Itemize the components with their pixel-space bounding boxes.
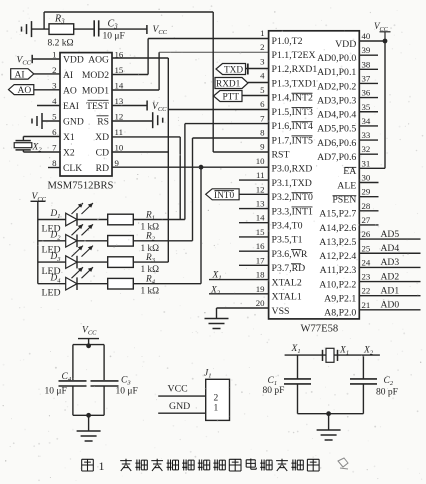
wire X1 to XTAL2 pin18 [209, 279, 269, 281]
resistor R2 body [108, 236, 134, 247]
svg-text:9: 9 [260, 142, 265, 152]
crystal X2 body [14, 143, 32, 148]
svg-text:A8,P2.0: A8,P2.0 [324, 308, 356, 319]
wire R3 to C3 [74, 28, 95, 30]
wire C3 to Vcc [99, 28, 147, 30]
svg-text:A9,P2.1: A9,P2.1 [324, 294, 356, 305]
svg-text:3: 3 [52, 81, 57, 91]
svg-text:PTT: PTT [223, 93, 240, 103]
stub pin 32 [359, 153, 378, 155]
node column AOG/P1.5/CD/D3 vertical [167, 58, 169, 262]
svg-text:1: 1 [99, 459, 105, 473]
svg-text:1: 1 [260, 28, 264, 38]
wire bottom rail of cap pair [73, 414, 104, 416]
stray mark right of caption [338, 458, 348, 469]
junction node RD/D4 [199, 165, 204, 170]
top rail wire (ground-R3 junction to RST column) [44, 11, 213, 13]
svg-text:6: 6 [260, 99, 265, 109]
svg-text:14: 14 [256, 213, 265, 223]
svg-text:6: 6 [52, 127, 57, 137]
stub pin 26 AD5 [359, 238, 420, 240]
stub pin 15 [239, 236, 269, 238]
svg-text:36: 36 [362, 88, 371, 98]
crystal X1 [322, 350, 324, 361]
svg-text:19: 19 [256, 284, 265, 294]
wire to ground [328, 414, 330, 430]
caption: figure 1 title (CJK glyphs approximated) [82, 459, 94, 471]
wire GND to J1 [158, 412, 206, 414]
capacitor C4 plates [59, 380, 87, 382]
svg-text:AD0,P0.0: AD0,P0.0 [317, 53, 356, 64]
wire R4 to node column [133, 283, 201, 285]
svg-text:2: 2 [214, 394, 219, 404]
stub pin 25 AD4 [359, 252, 420, 254]
svg-text:P1.3,TXD1: P1.3,TXD1 [272, 78, 317, 89]
wire MSM pin7 X2 [23, 151, 60, 153]
svg-text:AD1: AD1 [381, 286, 400, 297]
svg-text:P3.4,T0: P3.4,T0 [272, 221, 303, 232]
crystal X2 top plate [16, 140, 31, 142]
LED D2 [38, 240, 66, 242]
wire CD (MSM pin10) joins AOG column [112, 151, 168, 153]
svg-text:38: 38 [362, 59, 371, 69]
svg-text:23: 23 [362, 272, 371, 282]
svg-text:AD2: AD2 [381, 271, 400, 282]
wire RS (MSM pin12) to ground [112, 120, 153, 122]
Vcc tick at TEST [146, 101, 148, 111]
stub MSM pin4 EAI [37, 105, 60, 107]
Vcc at W77E58 pin40 VDD [359, 40, 385, 42]
LED D1 arrows [72, 203, 84, 214]
svg-text:P1.2,RXD1: P1.2,RXD1 [272, 64, 318, 75]
stub pin 24 AD3 [359, 266, 420, 268]
svg-text:GND: GND [169, 401, 190, 412]
IC U1 MSM7512BRS body [60, 53, 112, 176]
wire VCC to J1 [158, 395, 206, 397]
tag AI (analog in) [11, 69, 34, 79]
svg-text:GND: GND [63, 117, 84, 128]
capacitor C1 plates [284, 378, 311, 380]
svg-text:XTAL2: XTAL2 [272, 277, 302, 288]
svg-text:13: 13 [256, 199, 265, 209]
svg-text:22: 22 [362, 286, 371, 296]
ground at MSM RS pin12 [152, 112, 154, 128]
connector J1 body [206, 379, 230, 420]
resistor R3 body [49, 24, 74, 35]
svg-text:AI: AI [63, 70, 73, 81]
resistor R1 body [108, 214, 134, 225]
svg-text:AD1,P0.1: AD1,P0.1 [317, 67, 356, 78]
svg-text:12: 12 [256, 184, 265, 194]
wire to W77E58 pin8 P1.7/INT5 from LED D2 column [193, 137, 269, 139]
svg-text:1 kΩ: 1 kΩ [141, 287, 160, 297]
svg-text:W77E58: W77E58 [301, 324, 339, 335]
stub pin 34 [359, 125, 378, 127]
wire to W77E58 pin6 P1.5/INT3 [168, 109, 268, 111]
svg-text:P1.6,INT4: P1.6,INT4 [272, 121, 313, 132]
svg-text:RD: RD [96, 163, 109, 174]
stub pin 14 [239, 222, 269, 224]
stub pin 36 [359, 97, 378, 99]
svg-text:A14,P2.6: A14,P2.6 [319, 223, 356, 234]
ground decoupling caps [77, 430, 101, 432]
svg-text:18: 18 [256, 270, 265, 280]
svg-text:4: 4 [260, 71, 265, 81]
IC U2 W77E58 body [269, 31, 360, 319]
ground (top-left, bias network) [31, 21, 33, 37]
stub MSM pin8 CLK [48, 167, 60, 169]
svg-text:AD4: AD4 [381, 243, 400, 254]
wire INT0 tag to pin12 [239, 193, 269, 195]
svg-text:8.2 kΩ: 8.2 kΩ [48, 39, 74, 49]
svg-text:MOD2: MOD2 [82, 70, 109, 81]
svg-text:P3.0,RXD: P3.0,RXD [272, 164, 313, 175]
stub pin 29 [359, 196, 378, 198]
svg-text:EAI: EAI [63, 101, 79, 112]
svg-text:14: 14 [115, 81, 124, 91]
svg-text:39: 39 [362, 45, 371, 55]
svg-text:X1: X1 [63, 132, 75, 143]
svg-text:21: 21 [362, 300, 371, 310]
svg-text:AO: AO [18, 86, 32, 96]
ground crystal caps [317, 429, 341, 431]
Vcc terminal (bias network) [146, 25, 148, 34]
svg-text:XD: XD [95, 132, 109, 143]
svg-text:29: 29 [362, 187, 371, 197]
svg-text:10 μF: 10 μF [103, 32, 125, 42]
crystal X2 bottom plate [16, 149, 31, 151]
svg-text:16: 16 [256, 241, 265, 251]
svg-text:P1.1,T2EX: P1.1,T2EX [272, 50, 316, 61]
capacitor C2 plates [350, 378, 377, 380]
wire MOD1 (MSM pin14) to W77E58 pin2 [112, 89, 159, 91]
svg-text:AD4,P0.4: AD4,P0.4 [317, 110, 356, 121]
tag AO (analog out) [9, 85, 34, 95]
stub pin 33 [359, 139, 378, 141]
wire R1 to node column [133, 219, 185, 221]
svg-text:INT0: INT0 [214, 191, 234, 201]
svg-text:A13,P2.5: A13,P2.5 [319, 237, 356, 248]
capacitor C3 plates [93, 20, 95, 36]
wire ground to R3 [32, 28, 50, 30]
svg-text:8: 8 [52, 158, 57, 168]
wire MOD2 (MSM pin15) to W77E58 pin1 [112, 74, 148, 76]
wire to ground [88, 415, 90, 431]
svg-text:28: 28 [362, 201, 371, 211]
svg-text:13: 13 [115, 96, 124, 106]
stub pin 28 [359, 210, 378, 212]
junction caps bottom [86, 413, 91, 418]
wire RD (MSM pin9) to W77E58 pin10 P3.0/RXD [112, 166, 269, 168]
svg-text:25: 25 [362, 243, 371, 253]
junction crystal caps ground node [326, 411, 331, 416]
stub pin 37 [359, 82, 378, 84]
wire TEST (MSM pin13) to Vcc [112, 105, 147, 107]
svg-text:A10,P2.2: A10,P2.2 [319, 279, 356, 290]
svg-text:AD3: AD3 [381, 257, 400, 268]
svg-text:AD5: AD5 [381, 229, 400, 240]
overlines EA PSEN [345, 166, 357, 168]
svg-text:P1.7,INT5: P1.7,INT5 [272, 135, 313, 146]
wire MSM pin5 GND [42, 120, 60, 122]
svg-text:VSS: VSS [272, 306, 290, 317]
tag INT0 [206, 189, 239, 200]
wire PTT tag to pin5 [242, 95, 269, 97]
svg-text:TEST: TEST [86, 101, 109, 112]
stub pin 22 AD1 [359, 295, 420, 297]
svg-text:11: 11 [115, 127, 123, 137]
svg-text:P1.5,INT3: P1.5,INT3 [272, 107, 313, 118]
svg-text:P3.6,WR: P3.6,WR [272, 249, 308, 260]
tag PTT [214, 91, 243, 102]
wire left branch to C1 [297, 355, 299, 379]
svg-text:35: 35 [362, 102, 371, 112]
tag RXD1 [215, 78, 248, 89]
svg-text:A11,P2.3: A11,P2.3 [320, 265, 357, 276]
svg-text:LED: LED [42, 288, 61, 299]
junction Vcc caps top [86, 343, 91, 348]
svg-text:CD: CD [96, 148, 109, 159]
LED D4 [38, 283, 66, 285]
svg-text:AD7,P0.6: AD7,P0.6 [317, 152, 356, 163]
svg-text:33: 33 [362, 130, 371, 140]
svg-text:P1.0,T2: P1.0,T2 [272, 36, 303, 47]
svg-text:1: 1 [214, 404, 219, 414]
wire top rail of cap pair [73, 344, 104, 346]
junction Vcc node pin40 [383, 39, 388, 44]
svg-text:RST: RST [272, 149, 290, 160]
svg-text:AI: AI [15, 70, 25, 80]
wire LED D3 to R3 [77, 261, 108, 263]
stub pin 39 [359, 54, 378, 56]
stub pin 13 [239, 208, 269, 210]
wire RXD1 tag to pin4 [248, 82, 269, 84]
wire to W77E58 pin7 P1.6/INT4 from LED D1 column [185, 123, 269, 125]
svg-text:4: 4 [52, 96, 57, 106]
svg-text:24: 24 [362, 257, 371, 267]
LED D4 arrows [72, 267, 84, 278]
svg-text:5: 5 [260, 85, 265, 95]
svg-text:AO: AO [63, 86, 77, 97]
wire crystal bottom rail [298, 413, 364, 415]
svg-text:3: 3 [260, 56, 265, 66]
LED D2 arrows [72, 224, 84, 235]
svg-text:12: 12 [115, 112, 124, 122]
wire MSM pin6 X1 [23, 136, 60, 138]
wire LED D1 to R1 [77, 219, 108, 221]
TXD tag terminal tick [247, 64, 249, 75]
wire AO tag to MSM pin3 [34, 89, 60, 91]
svg-text:37: 37 [362, 73, 371, 83]
stub pin 30 [359, 182, 378, 184]
wire: rail drop at left to R3 input [43, 12, 45, 29]
svg-text:P3.7,RD: P3.7,RD [272, 263, 306, 274]
svg-text:AD5,P0.5: AD5,P0.5 [317, 124, 356, 135]
svg-text:1: 1 [52, 50, 56, 60]
svg-text:7: 7 [52, 143, 57, 153]
svg-text:RXD1: RXD1 [216, 80, 241, 90]
wire Vcc bus down to EA pin31 [384, 41, 386, 168]
svg-text:34: 34 [362, 116, 371, 126]
svg-text:2: 2 [260, 42, 264, 52]
svg-text:AOG: AOG [88, 55, 109, 66]
LED D1 [38, 219, 66, 221]
wire XD (MSM pin11) to LED D1 column [112, 136, 180, 138]
svg-text:20: 20 [256, 298, 265, 308]
svg-text:15: 15 [256, 227, 265, 237]
wire LED D2 to R2 [77, 240, 108, 242]
wire right branch C5 [103, 345, 105, 380]
stub pin 16 [239, 250, 269, 252]
resistor R3 body [108, 257, 134, 268]
wire junction down to LED D4 row [200, 167, 202, 284]
wire crystal top rail [285, 354, 380, 356]
wire TXD tag to pin3 [246, 68, 269, 70]
svg-text:5: 5 [52, 112, 57, 122]
stub pin 17 [239, 264, 269, 266]
svg-text:MSM7512BRS: MSM7512BRS [48, 181, 114, 192]
ground at W77E58 VSS [205, 318, 229, 320]
svg-text:80 pF: 80 pF [263, 386, 285, 396]
svg-text:8: 8 [260, 127, 265, 137]
svg-text:11: 11 [256, 170, 264, 180]
svg-text:80 pF: 80 pF [376, 388, 398, 398]
stub pin 35 [359, 111, 378, 113]
wire LED D4 to R4 [77, 283, 108, 285]
stub pin 38 [359, 68, 378, 70]
svg-text:P3.3,INT1: P3.3,INT1 [272, 206, 313, 217]
ground at MSM GND pin5 [41, 113, 43, 129]
stub pin 23 AD2 [359, 281, 420, 283]
svg-text:CLK: CLK [63, 163, 82, 174]
wire right branch to C2 [362, 355, 364, 379]
svg-text:VDD: VDD [335, 39, 356, 50]
svg-text:31: 31 [362, 158, 371, 168]
svg-text:VCC: VCC [168, 384, 188, 395]
svg-text:40: 40 [362, 31, 371, 41]
svg-text:15: 15 [115, 65, 124, 75]
svg-text:P3.1,TXD: P3.1,TXD [272, 178, 312, 189]
resistor R4 body [108, 278, 134, 289]
stub pin 27 [359, 224, 378, 226]
svg-text:26: 26 [362, 229, 371, 239]
svg-text:VDD: VDD [63, 55, 84, 66]
svg-text:P3.5,T1: P3.5,T1 [272, 235, 303, 246]
LED D3 [38, 261, 66, 263]
wire X2 to XTAL1 pin19 [209, 293, 269, 295]
stub pin 11 [239, 179, 269, 181]
wire AI tag to MSM pin2 [34, 73, 60, 75]
svg-text:TXD: TXD [224, 66, 243, 76]
stub pin 21 AD0 [359, 309, 420, 311]
wire AOG (MSM pin16) [112, 57, 168, 59]
svg-text:AD3,P0.3: AD3,P0.3 [317, 95, 356, 106]
capacitor C5 plates [91, 380, 119, 382]
wire R3 to node column [133, 261, 168, 263]
svg-text:MOD1: MOD1 [82, 86, 109, 97]
svg-text:A15,P2.7: A15,P2.7 [319, 209, 356, 220]
svg-text:10: 10 [115, 143, 124, 153]
svg-text:10: 10 [256, 156, 265, 166]
svg-text:10 μF: 10 μF [45, 387, 67, 397]
svg-text:AD2,P0.2: AD2,P0.2 [317, 81, 356, 92]
stub pin31 EA [359, 167, 385, 169]
svg-text:A12,P2.4: A12,P2.4 [319, 251, 356, 262]
wire R2 to node column [133, 240, 192, 242]
svg-text:17: 17 [256, 255, 265, 265]
svg-text:P3.2,INT0: P3.2,INT0 [272, 192, 313, 203]
wire LED supply column [37, 201, 39, 283]
tag TXD [216, 64, 246, 75]
svg-text:10 μF: 10 μF [116, 387, 138, 397]
wire Vcc to MSM pin1 [32, 58, 60, 60]
LED D3 arrows [72, 246, 84, 257]
wire left branch C4 [72, 345, 74, 380]
svg-text:X2: X2 [63, 148, 75, 159]
svg-text:RS: RS [97, 117, 109, 128]
wire VSS pin20 to ground [217, 307, 269, 309]
wire RST: top rail down to W77E58 pin9 [212, 12, 214, 152]
svg-text:7: 7 [260, 113, 265, 123]
svg-text:ALE: ALE [337, 180, 356, 191]
svg-text:P1.4,INT2: P1.4,INT2 [272, 93, 313, 104]
